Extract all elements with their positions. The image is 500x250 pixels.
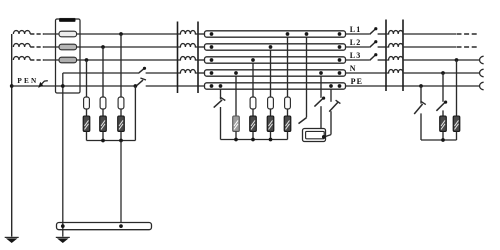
svg-text:PE: PE (351, 77, 364, 86)
svg-text:N: N (350, 64, 356, 73)
svg-text:L2: L2 (350, 38, 362, 47)
svg-text:L1: L1 (350, 25, 362, 34)
svg-text:PEN: PEN (17, 77, 38, 85)
svg-text:L3: L3 (350, 51, 362, 60)
